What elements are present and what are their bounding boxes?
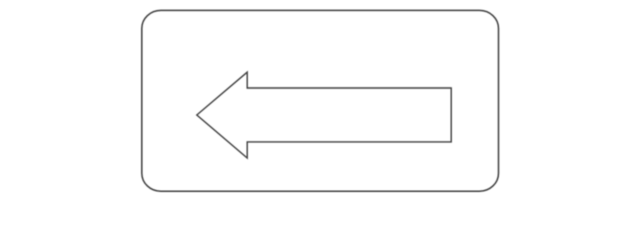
sign border (rounded rectangle outline): [142, 10, 499, 191]
left-pointing arrow outline: [197, 72, 451, 158]
